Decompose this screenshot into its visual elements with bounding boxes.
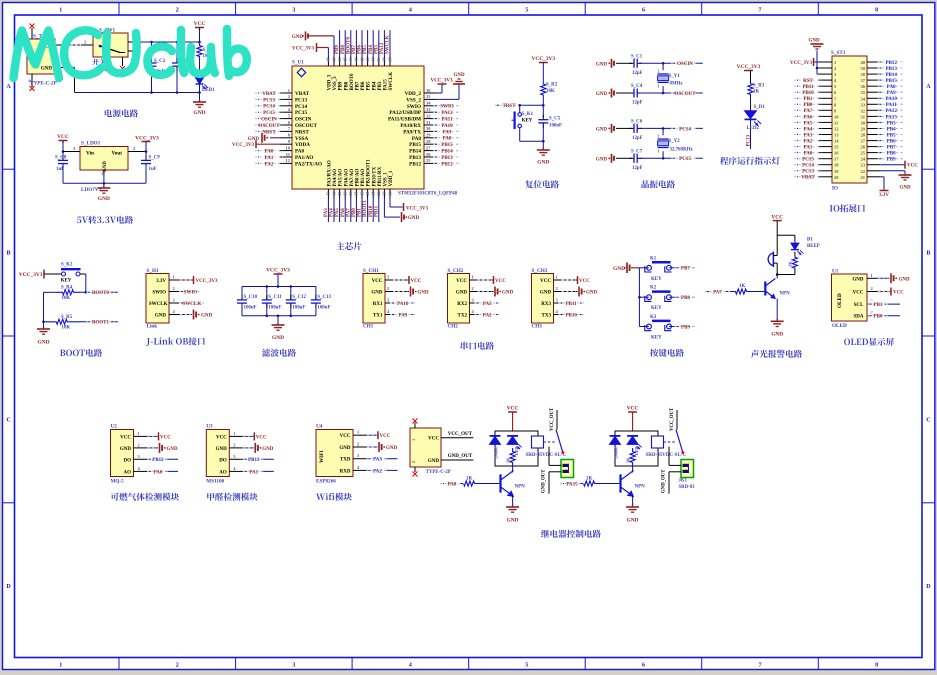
svg-text:S_C9: S_C9 [149,156,161,161]
svg-text:1: 1 [657,149,659,154]
svg-text:100uF: 100uF [268,305,281,310]
svg-text:GND: GND [507,518,519,524]
svg-text:SWIO: SWIO [152,291,166,296]
resistor 1K (relay base) [443,477,499,487]
svg-text:VCC_3V3: VCC_3V3 [531,56,555,62]
connector JK (relay out) [542,460,574,494]
transistor NPN (relay) [501,466,526,507]
mcu pin 27 PB14 (right) [409,145,461,154]
svg-text:GND: GND [386,446,398,451]
svg-text:PA8: PA8 [412,136,422,142]
svg-text:PB7: PB7 [352,45,357,54]
svg-text:12: 12 [286,158,291,163]
sensor U3 pin 2 [229,442,273,453]
header ST1 pin 26 (right) [861,143,906,150]
svg-text:PB9: PB9 [681,325,690,330]
svg-text:PA12/USB/DP: PA12/USB/DP [389,110,421,116]
svg-text:GND: GND [627,518,639,524]
serial CH3 pin 4 net [554,309,585,318]
svg-text:VCC: VCC [540,279,551,284]
svg-text:2: 2 [176,8,179,14]
diode 1N4007 (flyback) [610,436,621,459]
svg-text:2: 2 [176,663,179,669]
svg-text:VCC_OUT: VCC_OUT [670,407,675,431]
svg-text:A: A [926,84,931,90]
sensor U3 pin 4 [229,466,273,475]
svg-text:17: 17 [348,192,353,196]
wire T1 pin2 elbow [55,62,75,93]
LED2 [745,95,766,149]
svg-text:SWCLK: SWCLK [182,302,201,307]
wire T1 top pin [31,28,33,39]
svg-text:1: 1 [59,8,62,14]
label JK1 SRD-03 [679,479,696,491]
svg-text:PB10/TX: PB10/TX [372,166,377,186]
svg-text:4: 4 [409,8,412,14]
header ST1 pin 38 (right) [861,71,906,78]
resistor 1K (relay) [505,448,515,466]
svg-text:K3: K3 [650,315,657,320]
svg-text:S_Y1: S_Y1 [669,74,681,79]
svg-text:GND: GND [38,340,50,346]
svg-text:SDA: SDA [853,315,863,320]
resistor 1K (relay base) [563,477,619,487]
svg-text:1: 1 [657,84,659,89]
svg-text:48: 48 [326,58,331,62]
wifi U4 pin 4 [353,465,398,474]
serial CH1 pin 3 net [385,298,416,307]
mcu pin 35 VSS_2 (right) [406,94,436,103]
svg-text:U3: U3 [206,424,213,430]
svg-text:VCC: VCC [411,279,422,284]
svg-text:PA7/AO: PA7/AO [350,169,355,187]
svg-text:PA5/AO: PA5/AO [339,169,344,187]
svg-text:LED1: LED1 [202,88,215,93]
title 可燃气体检测模块 [111,493,179,501]
wire filter bottom rail [242,315,316,326]
no-ERC mark T1 bottom [30,86,35,91]
mcu pin 32 PA11/USB/DM (right) [388,113,461,122]
svg-text:VCC_OUT: VCC_OUT [448,432,473,437]
pushbutton S_K2 KEY [56,263,86,284]
svg-text:32: 32 [426,113,431,118]
svg-text:44: 44 [348,58,353,62]
svg-text:VCC_3V3: VCC_3V3 [266,268,290,274]
mcu pin 24 VDD_1 (bottom) [387,170,394,198]
mcu pin 30 PA9/TX (right) [403,126,461,135]
svg-text:PB8: PB8 [681,296,690,301]
header ST1 pin 24 (right) [861,155,906,162]
svg-text:VCC_3V3: VCC_3V3 [292,47,314,52]
OLED pin 2 [867,286,877,292]
sensor U3 MS1100 body [206,424,229,485]
svg-text:BOOT0: BOOT0 [346,37,351,54]
header ST1 pin 6 (left) [794,89,837,96]
header ST1 pin 32 (right) [861,107,906,114]
svg-text:ESP8266: ESP8266 [316,479,336,485]
svg-text:25: 25 [861,151,866,156]
svg-text:PB5: PB5 [367,81,372,90]
svg-text:KEY: KEY [651,277,662,282]
svg-text:KEY: KEY [61,279,72,284]
header ST1 pin 12 (left) [794,125,839,132]
label 开关 [92,58,106,65]
net label PA8 (relay base) [440,480,464,487]
crystal S_Y1 8MHz [657,62,683,94]
svg-text:S_C2: S_C2 [154,59,166,64]
svg-text:VCC_3V3: VCC_3V3 [790,61,812,66]
svg-text:GND: GND [596,157,608,162]
svg-text:PB11: PB11 [374,205,379,217]
serial CH2 pin 4 net [470,309,501,318]
resistor S_R2 10K [541,82,558,97]
svg-text:PB11/RX: PB11/RX [378,166,383,186]
svg-text:KEY: KEY [651,306,662,311]
svg-text:7: 7 [759,663,762,669]
title IO拓展口 [830,204,865,212]
title J-Link OB接口 [146,337,205,346]
svg-text:PA0: PA0 [154,470,163,475]
wifi module U4 ESP8266 body [316,424,353,485]
wire bottom rail power circuit [75,91,200,94]
header ST1 pin 17 (left) [794,155,839,162]
svg-text:31: 31 [861,114,866,119]
svg-text:1K: 1K [625,457,630,463]
relay switch contact [664,407,685,465]
svg-text:OSCOUT: OSCOUT [295,123,317,129]
svg-text:SWIO: SWIO [184,290,198,295]
svg-text:VSS_1: VSS_1 [384,172,389,187]
svg-text:TX2: TX2 [458,314,468,319]
svg-text:PA10: PA10 [397,302,409,307]
svg-text:VSSA: VSSA [295,136,309,142]
svg-text:S_D1: S_D1 [754,105,766,110]
svg-text:10K: 10K [62,326,71,331]
wire BOOT0 net [80,291,118,293]
capacitor S_C4 12pF / OSCOUT [596,84,703,106]
svg-text:22: 22 [376,192,381,196]
mcu pin 45 PB8 (top) [341,30,350,90]
net label PB0 (OLED) [868,312,900,319]
svg-text:PA3: PA3 [373,458,382,463]
ground GND power circuit [193,99,206,116]
wifi U4 pin 2 [353,442,398,453]
svg-text:GND_OUT: GND_OUT [542,469,547,493]
title 复位电路 [525,180,559,188]
svg-text:1N4007: 1N4007 [494,446,499,459]
title BOOT电路 [60,349,102,357]
net label PB7 [675,265,697,272]
svg-text:PA10/RX: PA10/RX [400,123,421,129]
svg-text:SRD-05VDC-SL-C: SRD-05VDC-SL-C [646,453,687,458]
svg-text:29: 29 [861,127,866,132]
header ST1 pin 7 (left) [794,95,837,102]
ground GND (relay) [626,504,639,523]
svg-text:18: 18 [354,192,359,196]
svg-text:1K: 1K [466,477,472,482]
svg-text:11: 11 [286,152,291,157]
svg-text:PB4: PB4 [369,45,374,54]
display U1 OLED body [832,269,868,330]
serial CH2 pin 3 net [470,298,501,307]
ground GND reset [537,147,550,165]
svg-text:21: 21 [371,192,376,196]
mcu pin 26 PB13 (right) [409,152,461,161]
svg-text:PB11: PB11 [566,302,578,307]
svg-text:RX1: RX1 [373,302,383,307]
mcu pin 8 VSSA (left) [248,133,309,143]
svg-text:VCC: VCC [380,434,391,439]
svg-text:SRD-05VDC-SL-C: SRD-05VDC-SL-C [526,453,567,458]
power port VCC_3V3 (reset) [531,56,555,82]
svg-text:PA4: PA4 [330,208,335,217]
svg-text:DO: DO [219,458,227,463]
net label PB1 (OLED) [868,301,900,308]
serial CH1 pin 2 net [385,286,429,297]
svg-text:43: 43 [354,58,359,62]
svg-text:PA9: PA9 [398,313,407,318]
svg-text:K1: K1 [650,256,657,261]
header ST1 pin 27 (right) [861,137,906,144]
header ST1 pin 15 (left) [794,143,839,150]
title 按键电路 [650,349,684,357]
svg-text:S_U1: S_U1 [292,60,304,66]
svg-text:PA2: PA2 [265,162,274,167]
svg-text:GND_OUT: GND_OUT [448,454,473,459]
svg-text:VCC: VCC [627,406,639,412]
resistor 1K (relay) [625,448,635,466]
crystal S_Y2 32.768KHz [657,127,693,160]
power port VCC (relay) [627,406,639,432]
svg-text:VCC_3V3: VCC_3V3 [232,143,254,148]
svg-text:D: D [6,584,11,590]
svg-text:PB7: PB7 [356,81,361,90]
net label TRST [495,102,523,109]
svg-text:23: 23 [382,192,387,196]
svg-text:PB0: PB0 [352,208,357,217]
header ST1 pin 9 (left) [794,107,837,114]
svg-text:30: 30 [426,126,431,131]
svg-text:PA1/AO: PA1/AO [295,155,313,161]
svg-text:26: 26 [861,145,866,150]
svg-text:VCC_3V3: VCC_3V3 [19,272,43,278]
svg-text:PB13: PB13 [248,458,260,463]
relay coil SRD-05VDC-SL-C [526,436,567,458]
svg-text:PA15: PA15 [384,79,389,91]
sensor U3 pin 1 [229,431,267,441]
svg-text:3: 3 [292,663,295,669]
header ST1 pin 11 (left) [794,119,839,126]
svg-text:VCC: VCC [907,164,918,169]
svg-text:VCC: VCC [372,279,383,284]
header ST1 pin 31 (right) [861,113,906,120]
sensor U2 pin 3 [134,454,179,463]
svg-text:S_C6: S_C6 [631,119,643,124]
svg-text:27: 27 [861,139,866,144]
svg-text:S_LDO1: S_LDO1 [81,141,101,147]
svg-text:IO: IO [832,186,838,192]
mcu pin 1 VBAT (left) [255,88,310,97]
capacitor S_C8 [55,152,68,184]
svg-text:S_C4: S_C4 [631,84,643,89]
sensor U2 pin 1 [134,431,172,441]
mcu pin 33 PA12/USB/DP (right) [389,107,461,116]
net label PB8 [675,294,697,301]
svg-text:36: 36 [426,88,431,93]
svg-text:GND: GND [852,277,864,282]
relay switch contact [544,407,565,465]
resistor 1K (alarm LED) [788,257,798,269]
svg-text:PB2/BOOT1: PB2/BOOT1 [367,159,372,187]
svg-text:PA6/AO: PA6/AO [344,169,349,187]
svg-text:PB8: PB8 [344,81,349,90]
svg-text:GND: GND [408,216,420,221]
svg-text:VCC: VCC [495,279,506,284]
header H1 pin 2 [169,286,179,292]
svg-text:29: 29 [426,133,431,138]
svg-text:1K: 1K [505,457,510,463]
svg-text:34: 34 [861,96,866,101]
serial CH2 pin 2 net [470,286,514,297]
header ST1 pin 23 (right) [861,163,881,168]
svg-text:PA7: PA7 [713,290,722,295]
svg-text:GND: GND [292,35,304,40]
wire VDD_2 to VCC_3V3 rail [431,79,453,94]
svg-text:13: 13 [834,133,839,138]
svg-text:CH1: CH1 [363,324,374,330]
svg-text:PB4: PB4 [372,81,377,90]
svg-text:C: C [6,417,10,423]
OLED pin 3 [867,299,877,305]
svg-text:GND: GND [371,291,383,296]
svg-text:NPN: NPN [780,292,791,297]
svg-text:RX2: RX2 [457,302,467,307]
svg-text:GND: GND [502,291,514,296]
svg-text:1K: 1K [739,284,745,289]
mcu pin 28 PB15 (right) [409,139,461,148]
svg-text:14: 14 [331,192,336,196]
svg-text:Vin: Vin [86,151,94,157]
capacitor S_C10 100uF [237,287,258,316]
svg-text:12pF: 12pF [632,101,643,106]
svg-text:VCC: VCC [160,435,171,440]
svg-text:19: 19 [359,192,364,196]
svg-text:19: 19 [834,169,839,174]
svg-text:GND: GND [248,137,260,142]
svg-text:OSCIN: OSCIN [677,62,693,67]
svg-text:PA7: PA7 [346,208,351,217]
svg-text:VCC: VCC [57,134,69,140]
transistor NPN (alarm) [765,276,790,322]
svg-text:A: A [6,84,11,90]
mcu pin 31 PA10/RX (right) [400,120,461,129]
svg-text:22: 22 [861,169,866,174]
mcu pin 22 PB11/RX (bottom) [374,166,383,222]
svg-text:GND: GND [418,291,430,296]
svg-text:TRST: TRST [502,104,516,109]
header ST1 pin 40 (right) [861,59,906,66]
serial header S_CH1 body [363,268,385,330]
svg-text:PC15: PC15 [295,110,308,116]
svg-text:37: 37 [387,58,392,62]
svg-text:S_R4: S_R4 [61,286,73,291]
net label PA7 [705,288,730,295]
mcu pin 4 PC15 (left) [255,107,308,116]
svg-text:41: 41 [365,58,370,62]
title 电源电路 [105,109,138,117]
svg-text:15: 15 [834,145,839,150]
mcu pin 15 PA5/AO (bottom) [335,169,344,222]
svg-text:2: 2 [657,69,659,74]
svg-text:GND: GND [339,446,351,451]
svg-text:20: 20 [834,175,839,180]
MCUclub watermark [14,29,247,78]
svg-text:GND: GND [596,62,608,67]
svg-text:PC14: PC14 [295,104,308,110]
serial CH3 pin 2 net [554,286,598,297]
header ST1 pin 28 (right) [861,131,906,138]
svg-text:BOOT0: BOOT0 [92,291,109,296]
header ST1 pin 1 (left) [819,60,837,65]
svg-text:VCC: VCC [579,279,590,284]
svg-text:NPN: NPN [515,485,526,490]
mcu pin 47 VSS_3 (top) [331,57,338,91]
wire relay frame [495,431,538,466]
svg-text:S_CH2: S_CH2 [448,268,464,274]
ground GND (OLED pin1) [877,273,910,283]
svg-text:JK1: JK1 [679,479,688,484]
svg-text:100nF: 100nF [549,124,562,129]
svg-text:13: 13 [326,192,331,196]
svg-text:12pF: 12pF [632,166,643,171]
svg-text:5: 5 [525,8,528,14]
svg-text:VCC: VCC [771,215,783,221]
svg-text:GND: GND [120,447,132,452]
header ST1 pin 5 (left) [794,83,837,90]
svg-text:PA11/USB/DM: PA11/USB/DM [388,117,421,123]
svg-text:VCC: VCC [456,279,467,284]
svg-text:GND: GND [808,39,820,44]
svg-text:NPN: NPN [635,485,646,490]
svg-text:10K: 10K [546,89,555,94]
title 程序运行指示灯 [720,157,780,165]
mcu pin 37 SWCLK (top) [386,30,395,90]
svg-text:PB0/AO: PB0/AO [356,169,361,187]
no-ERC mark SW1 right [128,49,138,54]
title 声光报警电路 [751,350,802,358]
svg-text:24: 24 [387,192,392,196]
svg-text:LED: LED [514,447,519,455]
svg-text:3: 3 [292,8,295,14]
svg-text:PB1/AO: PB1/AO [361,169,366,187]
svg-text:B: B [6,251,10,257]
svg-text:PB12: PB12 [152,458,164,463]
wire T1 pin1 to SW1 [55,40,93,46]
buzzer B1 BEEP [768,238,820,268]
svg-text:PB13: PB13 [409,155,421,161]
svg-text:RX3: RX3 [541,302,551,307]
svg-text:S_C12: S_C12 [292,295,306,300]
svg-text:100uF: 100uF [317,305,330,310]
mcu pin 21 PB10/TX (bottom) [369,166,378,222]
svg-text:PA2/TX/AO: PA2/TX/AO [295,161,322,167]
svg-text:VCC_3V3: VCC_3V3 [135,136,159,142]
svg-text:B1: B1 [807,238,813,243]
svg-text:GND: GND [155,314,167,319]
svg-text:1K: 1K [788,261,793,267]
svg-text:36: 36 [861,84,866,89]
svg-text:CH2: CH2 [448,324,459,330]
